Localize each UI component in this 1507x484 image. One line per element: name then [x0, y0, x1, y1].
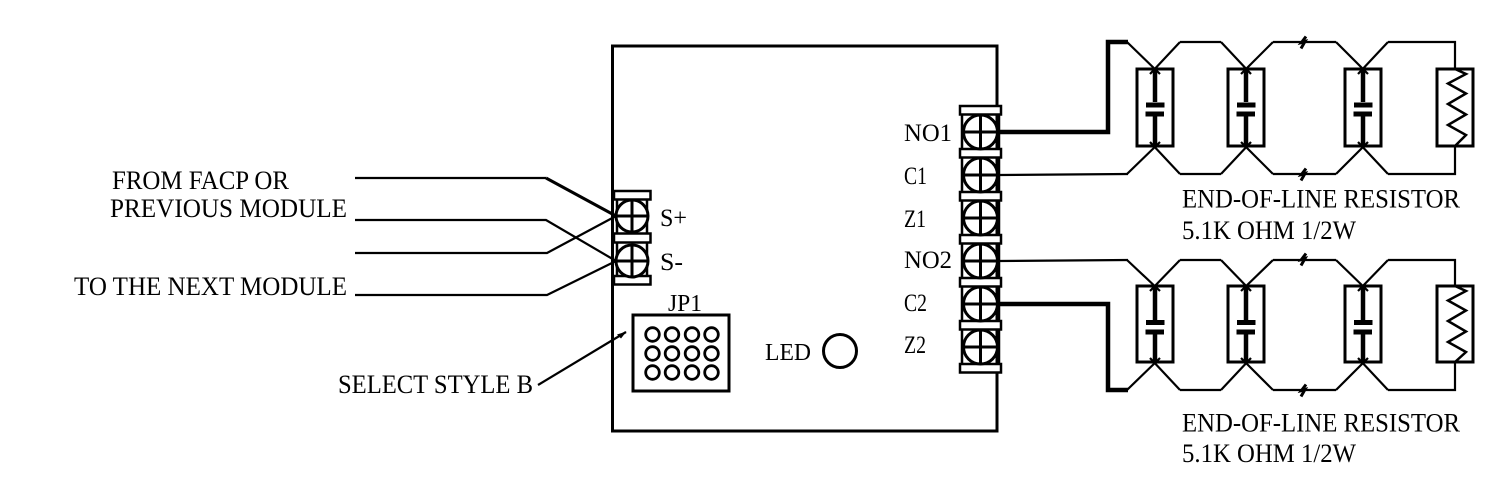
svg-text:END-OF-LINE RESISTOR: END-OF-LINE RESISTOR [1182, 409, 1461, 438]
wire top run D3-R1 [1358, 42, 1455, 74]
detector D6 zone2 [1345, 286, 1381, 362]
detector D4 zone2 [1137, 286, 1173, 362]
terminal NO2 screw [964, 244, 998, 278]
wire top run D6-R2 [1358, 260, 1455, 291]
wire top diagonal into D4 [1127, 260, 1160, 291]
terminal S+ screw [616, 200, 648, 232]
label FROM FACP OR / PREVIOUS MODULE [110, 166, 347, 223]
end-of-line resistor R1 [1437, 69, 1473, 146]
leader to JP1 [538, 332, 626, 385]
wire top bump D5-D6 [1241, 260, 1368, 291]
terminal block TB1 caps [614, 191, 651, 285]
svg-text:Z1: Z1 [904, 206, 926, 233]
leader arrowhead [617, 332, 627, 339]
svg-text:END-OF-LINE RESISTOR: END-OF-LINE RESISTOR [1182, 185, 1461, 214]
terminal block TB1 rails [617, 193, 647, 283]
wire incoming line 1 to S+ [355, 178, 616, 216]
wire bottom diagonal into D1 [1127, 142, 1160, 174]
wire bottom diagonal into D4 [1127, 358, 1160, 390]
detector D5 zone2 [1228, 286, 1264, 362]
terminal NO1 screw [964, 115, 998, 149]
svg-text:Z2: Z2 [904, 332, 926, 359]
terminal Z1 screw [964, 201, 998, 235]
wire NO1 thick [999, 42, 1128, 132]
terminal Z2 screw [964, 330, 998, 364]
JP1 pins [646, 328, 719, 380]
svg-text:C2: C2 [904, 290, 927, 317]
jumper block JP1 [633, 315, 729, 391]
wire C1 bottom rail left [999, 174, 1128, 175]
wire top diagonal into D1 [1127, 42, 1160, 74]
svg-text:S-: S- [660, 249, 683, 276]
detector D2 zone1 [1228, 69, 1264, 146]
wire NO2 top rail left [999, 260, 1128, 261]
terminal block TB2 caps [960, 106, 1001, 373]
wire bottom bump D2-D3 [1241, 142, 1368, 174]
terminal block TB2 rails [962, 108, 999, 370]
wire bottom bump D4-D5 [1150, 358, 1251, 390]
break mark bottom zone1 [1301, 169, 1306, 181]
wire bottom bump D5-D6 [1241, 358, 1368, 390]
svg-text:C1: C1 [904, 163, 927, 190]
wire top bump D2-D3 [1241, 42, 1368, 74]
svg-text:S+: S+ [660, 205, 687, 232]
detector D1 zone1 [1137, 69, 1173, 146]
wire bottom run D3-R1 [1358, 142, 1455, 174]
svg-text:5.1K OHM 1/2W: 5.1K OHM 1/2W [1182, 439, 1356, 468]
terminal C2 screw [964, 287, 998, 321]
wire outgoing line 4 to S- [355, 261, 616, 295]
terminal S- screw [616, 245, 648, 277]
svg-text:FROM FACP OR: FROM FACP OR [112, 166, 290, 195]
svg-text:SELECT STYLE B: SELECT STYLE B [338, 370, 533, 399]
LED indicator D1 [824, 335, 857, 368]
break mark bottom zone2 [1301, 385, 1306, 397]
svg-text:LED: LED [765, 340, 811, 366]
terminal C1 screw [964, 158, 998, 192]
wire C2 thick [999, 304, 1128, 390]
svg-text:NO1: NO1 [904, 120, 952, 147]
wire top bump D1-D2 [1150, 42, 1251, 74]
module outline U1 [613, 46, 998, 431]
detector D3 zone1 [1345, 69, 1381, 146]
wire top bump D4-D5 [1150, 260, 1251, 291]
svg-text:PREVIOUS MODULE: PREVIOUS MODULE [110, 194, 347, 223]
wire outgoing line 3 to S+ [355, 216, 616, 253]
wire bottom run D6-R2 [1358, 358, 1455, 390]
break mark top zone1 [1301, 37, 1306, 49]
break mark top zone2 [1301, 254, 1306, 266]
end-of-line resistor R2 [1437, 286, 1473, 362]
wire bottom bump D1-D2 [1150, 142, 1251, 174]
wire incoming line 2 to S- [355, 220, 616, 261]
svg-text:TO THE NEXT MODULE: TO THE NEXT MODULE [74, 272, 347, 301]
svg-text:5.1K OHM 1/2W: 5.1K OHM 1/2W [1182, 216, 1356, 245]
svg-text:JP1: JP1 [668, 291, 702, 317]
svg-text:NO2: NO2 [904, 247, 952, 274]
